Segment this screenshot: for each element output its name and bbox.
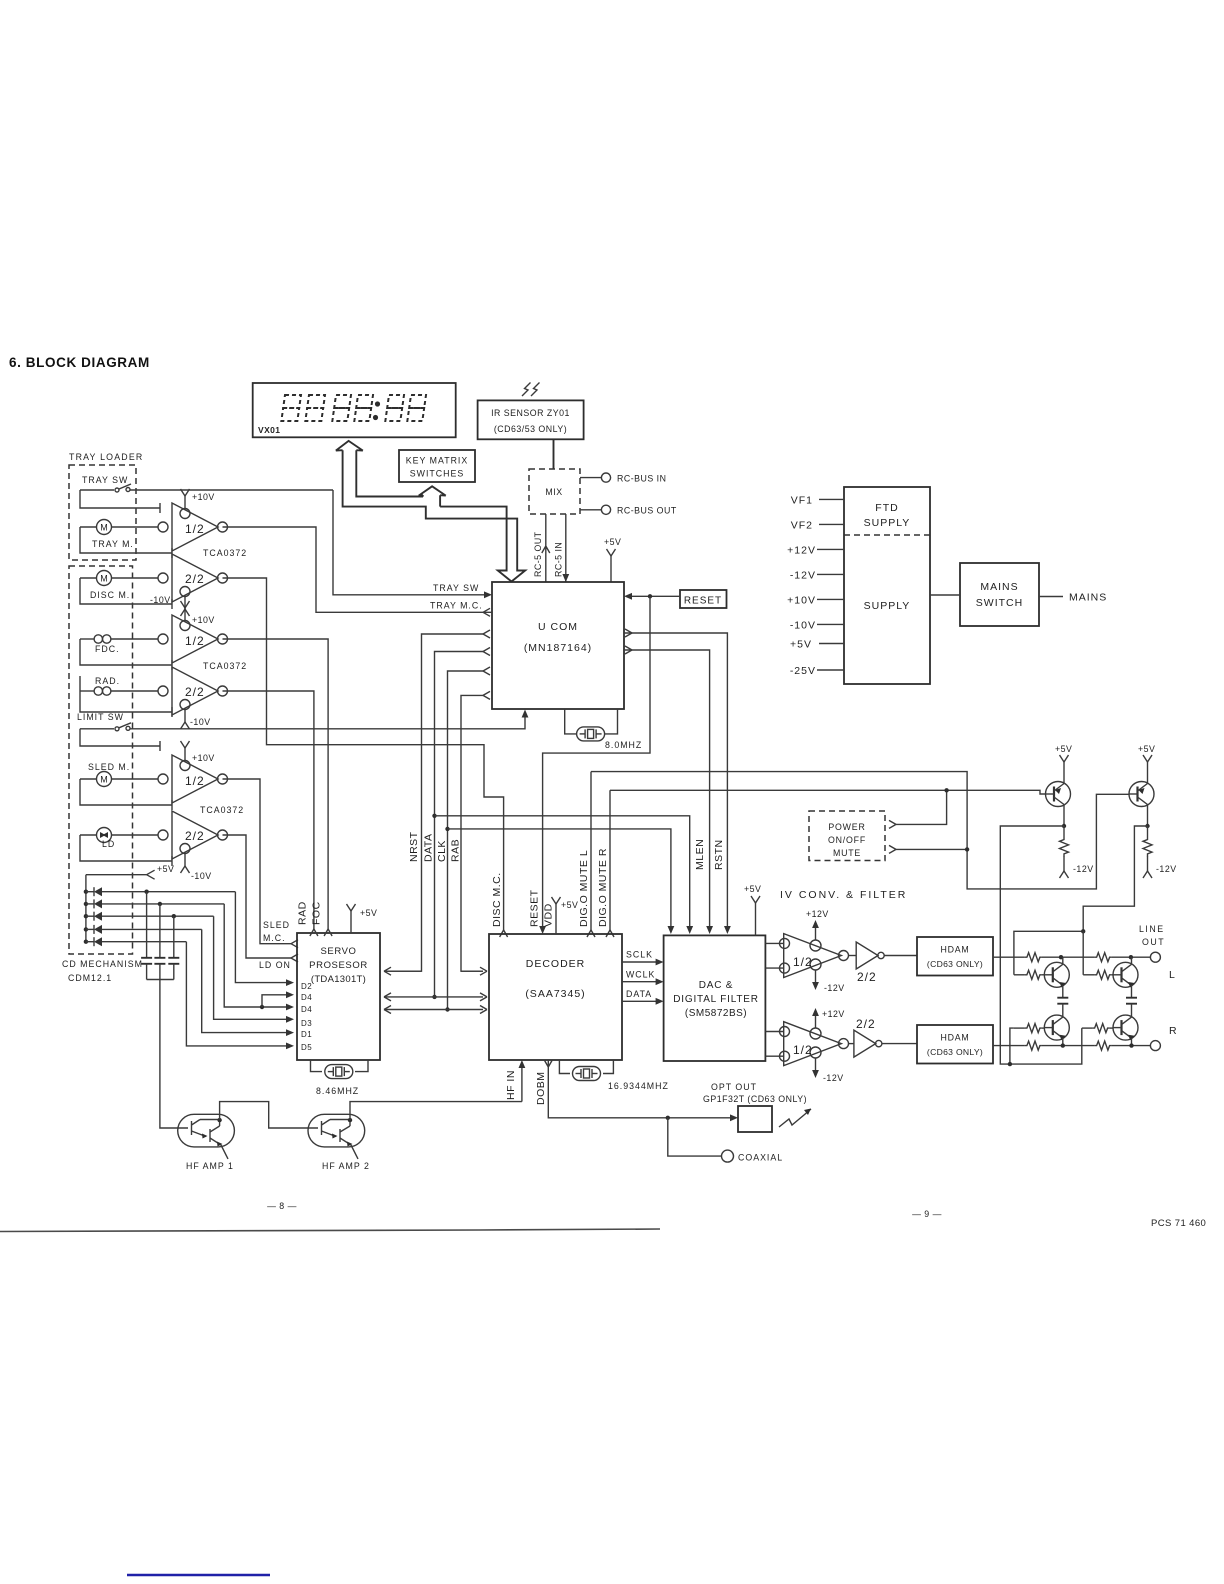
supply input -10V [790,620,844,632]
+12V arrow op-amp R [812,1008,845,1028]
wire DATA from U COM [432,648,490,1000]
svg-text:TRAY M.: TRAY M. [92,539,134,549]
wire HF AMP1 to HF AMP2 [220,1102,318,1128]
+12V arrow op-amp L [806,909,829,940]
svg-text:LD: LD [102,839,115,849]
wire TRAY M.C. from U COM [223,527,493,616]
svg-text:RC-5 OUT: RC-5 OUT [533,531,543,577]
HDAM box R [917,1025,993,1064]
wire diode row2 to D4/D4 [224,904,294,1010]
svg-text:DATA: DATA [423,834,435,862]
lightning marks [522,383,540,397]
servo-decoder bus 2 [384,993,487,1001]
servo +5V [347,904,378,933]
svg-text:SLED M.: SLED M. [88,762,130,772]
wire DOBM to OPT OUT [544,1060,738,1121]
svg-text:RAD.: RAD. [95,676,120,686]
power mute out 1 [889,788,949,828]
wire RESET to DECODER [543,596,650,930]
svg-text:POWER: POWER [828,822,865,832]
blue underline bottom left [127,1574,270,1577]
svg-text:VF2: VF2 [791,520,813,532]
svg-text:2/2: 2/2 [856,1017,876,1031]
svg-text:— 8 —: — 8 — [267,1201,297,1211]
limit switch [80,723,131,731]
R channel rail [993,1041,1160,1051]
mechanism dashed box [69,566,133,954]
svg-text:2/2: 2/2 [185,685,205,699]
svg-text:IV CONV. & FILTER: IV CONV. & FILTER [780,889,907,901]
svg-text:RSTN: RSTN [713,839,725,870]
svg-text:(SM5872BS): (SM5872BS) [685,1008,747,1019]
wire supply to mains switch [930,594,960,596]
HDAM box L [917,937,993,976]
svg-text:KEY MATRIX: KEY MATRIX [406,456,468,466]
FTD SUPPLY / SUPPLY box [844,487,930,684]
svg-text:GP1F32T (CD63 ONLY): GP1F32T (CD63 ONLY) [703,1094,807,1104]
svg-text:+5V: +5V [744,884,761,894]
resistor below Q1 [1060,826,1094,878]
svg-text:HDAM: HDAM [940,945,969,955]
wire diode row3 to D3 [214,916,289,1019]
IR sensor box [478,400,584,439]
svg-text:RESET: RESET [684,596,722,607]
wire FDC amp to servo FOC [223,639,329,929]
svg-text:2/2: 2/2 [185,572,205,586]
motor TRAY M. [80,520,172,559]
svg-text:(TDA1301T): (TDA1301T) [311,974,366,985]
svg-text:+5V: +5V [604,537,621,547]
tray switch [80,484,333,492]
diode row 4 [84,925,202,934]
svg-text:MLEN: MLEN [694,839,706,870]
outline arrow display feed [336,441,525,582]
R network bottom rail [1010,1028,1082,1064]
svg-text:VF1: VF1 [791,495,813,507]
supply input +12V [787,545,844,557]
svg-text:-25V: -25V [790,665,816,677]
svg-text:+10V: +10V [787,595,816,607]
svg-text:HF AMP 2: HF AMP 2 [322,1161,370,1171]
limit switch return stub [80,729,160,751]
svg-text:+5V: +5V [561,900,578,910]
svg-text:1/2: 1/2 [185,522,205,536]
svg-text:DOBM: DOBM [535,1072,547,1106]
svg-text:DIG.O MUTE R: DIG.O MUTE R [597,848,609,927]
wire WCLK [622,970,664,986]
svg-text:CLK: CLK [436,840,448,862]
op-amp 1/2 FDC (TCA0372) [158,601,228,663]
L base resistor left [1014,970,1044,979]
wire DATA [622,989,664,1005]
svg-text:VDD: VDD [543,903,555,927]
op-amp 1/2 TRAY (TCA0372) [158,489,228,551]
svg-text:+10V: +10V [192,753,215,763]
svg-text:2/2: 2/2 [185,829,205,843]
svg-text:OUT: OUT [1142,937,1165,947]
transistor R1 [1044,1004,1069,1046]
svg-text:MAINS: MAINS [980,581,1018,593]
svg-text:TRAY LOADER: TRAY LOADER [69,452,143,462]
RESET box [680,590,727,608]
transistor Q2 mute R [1129,744,1155,828]
op-amp 1/2 SLED (TCA0372) [158,741,228,803]
wire 2/2 L to HDAM1 [884,955,917,957]
wire SCLK [622,950,664,966]
vertical DIG.O MUTE R down to decoder [609,790,611,930]
svg-text:RAD: RAD [297,901,309,925]
svg-text:1/2: 1/2 [793,955,813,969]
svg-text:— 9 —: — 9 — [912,1209,942,1219]
svg-text:TRAY M.C.: TRAY M.C. [430,601,483,611]
svg-text:MUTE: MUTE [833,848,861,858]
tray loader dashed box [69,465,136,560]
svg-text:(SAA7345): (SAA7345) [525,988,585,1000]
svg-text:L: L [1169,969,1176,981]
svg-text:HDAM: HDAM [940,1033,969,1043]
svg-text:M.C.: M.C. [263,933,286,943]
svg-text:+5V: +5V [1138,744,1155,754]
svg-text:SCLK: SCLK [626,950,653,960]
svg-text:-10V: -10V [190,717,211,727]
wire RAB from U COM [461,691,490,975]
svg-text:1/2: 1/2 [185,634,205,648]
vertical DIG.O MUTE L down to decoder [590,772,592,930]
svg-text:D1: D1 [301,1030,312,1039]
wire DATA branch to DAC [432,814,693,934]
DECODER (SAA7345) box [489,934,622,1060]
supply input -12V [790,570,844,582]
decoder RESET pin arrow [539,926,546,934]
op-amp 2/2 LD (TCA0372) [158,811,228,881]
svg-text:+5V: +5V [790,639,812,651]
svg-text:+10V: +10V [192,492,215,502]
svg-text:D5: D5 [301,1043,312,1052]
svg-text:16.9344MHZ: 16.9344MHZ [608,1081,669,1091]
svg-text:-10V: -10V [191,871,212,881]
svg-text:SUPPLY: SUPPLY [864,517,911,529]
svg-text:R: R [1169,1025,1178,1037]
wire RESET to U COM [624,593,680,600]
wire Q1 emitter to R network [1000,826,1064,1064]
laser diode LD [80,828,172,867]
L base resistor right [1083,970,1113,979]
wire DISC M.C. (amp to decoder) [223,578,508,937]
wire LIMIT SW to U COM bottom [130,713,525,729]
svg-text:TRAY SW: TRAY SW [433,583,479,593]
svg-text:-12V: -12V [824,983,845,993]
svg-text:SERVO: SERVO [320,946,356,957]
crystal 8.0MHZ [565,709,643,750]
svg-text:MIX: MIX [545,487,562,497]
svg-text:DISC M.C.: DISC M.C. [491,872,503,927]
supply input +10V [787,595,844,607]
transistor Q1 mute L [1046,744,1073,828]
HF AMP 2 [308,1114,370,1171]
key matrix switches box [399,450,475,482]
svg-text:D4: D4 [301,993,312,1002]
diode array bus [85,875,87,942]
svg-text:LIMIT SW: LIMIT SW [77,712,124,722]
svg-text:DAC &: DAC & [699,980,734,991]
wire CLK branch to DAC [445,827,674,934]
diode row 3 [84,912,214,921]
+5V into U COM top [604,537,621,582]
wire HF IN into decoder [519,1060,526,1102]
svg-text:TCA0372: TCA0372 [203,661,247,671]
diode row 5 [84,937,187,946]
wire U COM out RSTN [624,633,727,930]
svg-text:DIGITAL FILTER: DIGITAL FILTER [673,994,758,1005]
wire TRAY SW to U COM [333,490,492,598]
svg-text:RC-BUS OUT: RC-BUS OUT [617,506,677,516]
servo-decoder bus 1 [384,970,483,972]
svg-text:+5V: +5V [1055,744,1072,754]
wire RAD amp to servo RAD [223,691,314,929]
svg-text:+5V: +5V [360,908,377,918]
svg-text:OPT OUT: OPT OUT [711,1082,757,1092]
svg-text:NRST: NRST [408,831,420,862]
wire 2/2 R to HDAM2 [882,1043,917,1045]
servo pin arrows RAD FOC [310,929,318,936]
MIX box (dashed) [529,469,580,514]
svg-text:-10V: -10V [790,620,816,632]
svg-text:TCA0372: TCA0372 [203,548,247,558]
SERVO PROSESOR (TDA1301T) box [297,933,380,1060]
crystal 8.46MHZ [311,1060,369,1096]
op-amp 2/2 DISC (TCA0372) [150,554,228,616]
diode row 2 [84,899,225,908]
capacitor R [1126,998,1137,1004]
svg-text:+12V: +12V [806,909,829,919]
wire RC-5 OUT (U COM to MIX) [533,514,550,582]
svg-text:D3: D3 [301,1019,312,1028]
supply input VF2 [791,520,844,532]
svg-text:HF AMP 1: HF AMP 1 [186,1161,234,1171]
supply input VF1 [791,495,844,507]
svg-text:DISC M.: DISC M. [90,590,130,600]
svg-text:FOC: FOC [311,901,323,925]
svg-text:1/2: 1/2 [185,774,205,788]
wire mains switch out [1039,596,1063,598]
svg-text:2/2: 2/2 [857,970,877,984]
display VX01 box [253,383,456,437]
svg-text:WCLK: WCLK [626,970,655,980]
outline arrow key matrix feed [419,486,446,506]
svg-text:LINE: LINE [1139,924,1165,934]
svg-text:+10V: +10V [192,615,215,625]
svg-text:1/2: 1/2 [793,1043,813,1057]
crystal 16.9344MHZ [559,1060,668,1091]
svg-text:RC-BUS IN: RC-BUS IN [617,474,666,484]
svg-text:SUPPLY: SUPPLY [864,600,911,612]
svg-text:LD ON: LD ON [259,960,291,970]
wire diode row4 to D1 [202,929,289,1032]
svg-text:U COM: U COM [538,621,578,633]
wires DAC to op-amp R [765,1032,783,1057]
svg-text:MAINS: MAINS [1069,592,1107,604]
diode row 1 [84,887,236,896]
svg-text:+12V: +12V [787,545,816,557]
DAC +5V [744,884,761,935]
wire LD ON [223,835,299,970]
RC-BUS OUT terminal [580,505,677,515]
wire caps to HF AMP 1 [160,980,166,1129]
svg-text:CD MECHANISM: CD MECHANISM [62,959,143,969]
op-amp 2/2 RAD (TCA0372) [158,667,228,729]
op-amp 1/2 L [780,934,849,978]
-12V arrow op-amp R [812,1058,843,1083]
svg-text:+5V: +5V [157,864,174,874]
svg-text:SWITCHES: SWITCHES [410,469,464,479]
R base resistor right [1082,1024,1113,1033]
U COM (MN187164) box [492,582,624,709]
HF AMP 1 [166,1114,234,1171]
long mute line R (DIG.O MUTE R) to left transistor base [610,790,1046,794]
svg-text:FDC.: FDC. [95,644,120,654]
wire RC-5 IN (MIX to U COM) [554,514,570,582]
motor SLED M. [80,762,172,810]
svg-text:D2: D2 [301,982,312,991]
coil FDC. [80,635,172,670]
svg-text:(CD63 ONLY): (CD63 ONLY) [927,1047,983,1057]
supply input -25V [790,665,844,677]
buffer 2/2 R [849,1017,882,1057]
svg-text:DIG.O MUTE L: DIG.O MUTE L [578,850,590,927]
capacitor bank [141,892,179,980]
svg-text:IR SENSOR ZY01: IR SENSOR ZY01 [491,408,570,418]
svg-text:COAXIAL: COAXIAL [738,1153,783,1163]
L network top rail [1014,931,1083,975]
svg-text:D4: D4 [301,1005,312,1014]
coil RAD. [80,676,172,717]
COAXIAL terminal [668,1118,783,1163]
svg-text:PCS 71 460: PCS 71 460 [1151,1218,1206,1229]
wire U COM out MLEN [624,650,710,930]
POWER ON/OFF MUTE box (dashed) [809,811,885,861]
transistor R2 [1113,1004,1138,1046]
wire IR sensor to MIX [553,439,555,469]
svg-text:DATA: DATA [626,989,652,999]
svg-text:VX01: VX01 [258,425,280,435]
svg-text:(MN187164): (MN187164) [524,642,592,654]
wire RSTN into DAC [724,926,731,934]
wire SLED M.C. [223,779,299,948]
display colon [375,401,380,406]
DAC & DIGITAL FILTER (SM5872BS) box [664,935,766,1061]
wire MLEN into DAC [706,926,713,934]
svg-text:8.0MHZ: 8.0MHZ [605,740,642,750]
optical squiggle [779,1109,811,1128]
transistor L1 [1044,957,1069,998]
svg-text:TRAY SW: TRAY SW [82,475,128,485]
OPT OUT box [738,1106,772,1132]
svg-text:-10V: -10V [150,595,171,605]
svg-text:-12V: -12V [1156,864,1177,874]
capacitor L [1057,998,1068,1004]
svg-text:6. BLOCK DIAGRAM: 6. BLOCK DIAGRAM [9,355,150,370]
svg-text:FTD: FTD [875,502,898,514]
page footer rule [0,1229,660,1232]
svg-text:TCA0372: TCA0372 [200,805,244,815]
MAINS SWITCH box [960,563,1039,626]
resistor below Q2 [1143,826,1177,878]
motor DISC M. [80,571,172,610]
-12V arrow op-amp L [812,970,844,993]
VDD +5V [552,897,579,934]
svg-text:-12V: -12V [790,570,816,582]
svg-text:(CD63 ONLY): (CD63 ONLY) [927,959,983,969]
buffer 2/2 L [849,942,885,984]
op-amp 1/2 R [780,1022,849,1066]
svg-text:DECODER: DECODER [526,958,586,970]
svg-text:RESET: RESET [529,889,541,927]
RC-BUS IN terminal [580,473,666,484]
svg-text:SWITCH: SWITCH [976,597,1023,609]
wire CLK from U COM [445,667,490,1012]
wire HF AMP2 to HF IN [350,1102,522,1121]
svg-text:ON/OFF: ON/OFF [828,835,866,845]
svg-text:PROSESOR: PROSESOR [309,960,368,971]
+5V feed diode array [86,864,175,879]
wires DAC to op-amp L [765,943,783,968]
svg-text:(CD63/53 ONLY): (CD63/53 ONLY) [494,424,567,434]
svg-text:-12V: -12V [1073,864,1094,874]
wire Q2 emitter to L network [1083,826,1147,931]
L channel rail [993,952,1160,962]
svg-text:8.46MHZ: 8.46MHZ [316,1086,359,1096]
svg-text:RC-5 IN: RC-5 IN [554,542,564,577]
supply input +5V [790,639,844,651]
transistor L2 [1113,957,1138,998]
tray switch return stub [80,490,160,513]
long mute line L (DIG.O MUTE L) [591,772,1129,889]
wire diode row5 to D5 [186,942,289,1046]
svg-text:CDM12.1: CDM12.1 [68,973,112,983]
svg-text:+12V: +12V [822,1009,845,1019]
servo-decoder bus 3 [384,1006,487,1014]
7-segment digits 88 88:88 [281,395,426,421]
power mute out 2 [889,845,969,853]
R base resistor left [1014,1024,1044,1033]
svg-text:SLED: SLED [263,920,290,930]
svg-text:RAB: RAB [450,839,462,862]
svg-text:HF IN: HF IN [505,1070,517,1100]
wire diode row1 to D2 [235,892,289,983]
wire NRST from U COM [384,630,490,975]
svg-text:-12V: -12V [823,1073,844,1083]
